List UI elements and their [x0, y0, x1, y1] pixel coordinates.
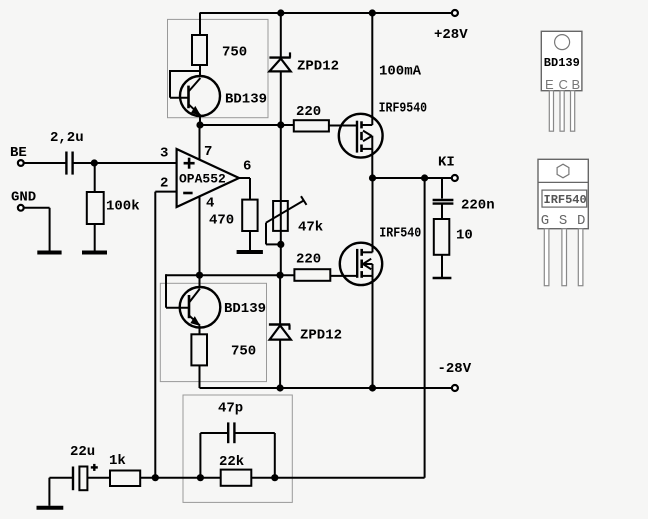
- potentiometer 47k: [266, 196, 307, 231]
- wire Q2 emitter to R750: [199, 326, 201, 335]
- svg-text:ZPD12: ZPD12: [297, 59, 339, 75]
- resistor 22k: [221, 470, 252, 486]
- wire pin7 supply to bias node: [199, 125, 201, 160]
- pin C lead: [560, 91, 564, 132]
- svg-text:7: 7: [204, 144, 212, 160]
- svg-text:100mA: 100mA: [379, 64, 422, 80]
- svg-text:BD139: BD139: [225, 92, 267, 108]
- node 22k left: [197, 474, 204, 481]
- wire top rail +28V: [200, 12, 452, 14]
- svg-text:GND: GND: [11, 190, 36, 206]
- node Q1 emitter: [196, 121, 203, 128]
- wire C to op-amp + input: [74, 162, 177, 164]
- wire bias node to zener column: [200, 124, 294, 126]
- resistor 220 (upper gate): [294, 120, 329, 131]
- op-amp plus sign: [184, 158, 195, 169]
- svg-text:E: E: [545, 77, 554, 92]
- pin label 2: [160, 176, 168, 192]
- label BD139 upper: [225, 92, 267, 108]
- pin label E: [545, 77, 554, 92]
- transistor U2 IRF9540: [339, 114, 383, 158]
- label KI: [438, 155, 455, 171]
- terminal GND: [18, 205, 24, 211]
- wire R750 lower to bottom rail: [199, 365, 201, 388]
- ground bar under zobel: [433, 277, 452, 280]
- resistor 100k: [87, 192, 104, 224]
- wire lower zener to bottom rail: [279, 340, 281, 388]
- wire IRF540 source to bottom rail: [372, 276, 374, 388]
- svg-text:+28V: +28V: [434, 27, 468, 43]
- wire BE to C 2,2u: [24, 162, 66, 164]
- wire zener to bias node: [280, 71, 282, 275]
- svg-text:OPA552: OPA552: [179, 172, 226, 187]
- svg-text:ZPD12: ZPD12: [300, 328, 342, 344]
- label +28V: [434, 27, 468, 43]
- svg-text:-28V: -28V: [438, 361, 472, 377]
- node bottom rail / zener: [277, 384, 284, 391]
- op-amp U1 OPA552: [177, 149, 239, 207]
- wire KI feedback vertical: [424, 178, 426, 478]
- label 220n: [461, 198, 495, 214]
- svg-text:220: 220: [296, 252, 321, 268]
- node top rail / zener: [277, 9, 284, 16]
- svg-text:750: 750: [222, 45, 247, 61]
- wire R100k to ground: [94, 224, 96, 251]
- wire pin4 row: [166, 274, 294, 276]
- svg-text:D: D: [577, 213, 585, 229]
- label OPA552: [179, 172, 226, 187]
- node feedback / 1k: [152, 474, 159, 481]
- resistor 750 (upper): [192, 35, 207, 65]
- wire ground to C22u: [49, 478, 73, 506]
- pin label S: [559, 213, 567, 229]
- resistor 470: [242, 200, 257, 231]
- wire bottom rail -28V: [200, 387, 452, 389]
- svg-text:1k: 1k: [109, 453, 126, 469]
- label BD139 package: [544, 56, 580, 70]
- plus mark 22u: [91, 464, 98, 471]
- package BD139 TO-126: [541, 31, 582, 90]
- wire zobel drop: [441, 178, 443, 199]
- label 22u: [70, 444, 95, 460]
- node output / feedback tap: [421, 174, 428, 181]
- wire zener column upper segment: [280, 13, 282, 58]
- node bottom rail / IRF540: [369, 384, 376, 391]
- label GND: [11, 190, 36, 206]
- svg-text:6: 6: [243, 159, 251, 175]
- svg-text:4: 4: [206, 196, 214, 212]
- capacitor 47p: [228, 422, 234, 443]
- label 22k: [219, 454, 244, 470]
- node output midpoint: [369, 174, 376, 181]
- capacitor C 2,2u: [66, 152, 72, 175]
- ground bar under 470: [237, 250, 263, 254]
- label 750 lower: [231, 344, 256, 360]
- node 22k right: [271, 474, 278, 481]
- wire feedback bottom row right: [251, 477, 424, 479]
- pin label C: [559, 77, 568, 92]
- label IRF9540: [379, 101, 428, 117]
- svg-text:220: 220: [296, 104, 321, 120]
- label 47p: [218, 401, 243, 417]
- ground bar under 22u: [37, 506, 64, 510]
- pin label G: [541, 213, 549, 229]
- wire IRF540 drain to output node: [372, 178, 374, 252]
- wire op-amp output: [239, 178, 250, 200]
- pin G lead: [544, 229, 549, 286]
- zener diode ZPD12 (upper): [269, 52, 290, 71]
- label IRF540: [379, 226, 421, 242]
- svg-text:22k: 22k: [219, 454, 244, 470]
- node pin4 / Q2 collector: [196, 272, 203, 279]
- svg-text:3: 3: [160, 146, 168, 162]
- transistor Q2 BD139 (lower): [180, 287, 221, 328]
- wire pin4 supply down: [199, 197, 201, 276]
- svg-text:220n: 220n: [461, 198, 495, 214]
- wire 220n to R10: [441, 205, 443, 220]
- wire R750 to collector: [199, 65, 201, 77]
- pin E lead: [549, 91, 553, 132]
- wire IRF9540 source to rail: [371, 13, 373, 125]
- wire base-collector tie of Q1: [170, 70, 200, 98]
- label 220 upper: [296, 104, 321, 120]
- box around upper BD139 stage: [168, 19, 269, 117]
- wire from rail down to R 750: [199, 13, 201, 35]
- wire feedback vertical: [154, 192, 156, 478]
- node 47k wiper: [277, 241, 284, 248]
- wire R220 lower to IRF540 gate: [330, 275, 356, 277]
- pin label 7: [204, 144, 212, 160]
- svg-text:IRF9540: IRF9540: [379, 101, 428, 117]
- svg-text:BE: BE: [10, 145, 27, 161]
- pin label D: [577, 213, 585, 229]
- wire R220 to IRF9540 gate: [329, 125, 357, 127]
- box around lower BD139 stage: [160, 283, 266, 381]
- svg-text:BD139: BD139: [224, 301, 266, 317]
- svg-text:BD139: BD139: [544, 56, 580, 70]
- node top rail / IRF9540: [369, 9, 376, 16]
- resistor 10: [434, 219, 450, 255]
- svg-text:S: S: [559, 213, 567, 229]
- ground bar under 100k: [82, 251, 107, 255]
- wire inverting input: [155, 191, 176, 193]
- wire R1k to 22k: [140, 477, 221, 479]
- label 47k: [298, 220, 323, 236]
- wire GND input: [24, 208, 50, 251]
- svg-text:C: C: [559, 77, 568, 92]
- label BD139 lower: [224, 301, 266, 317]
- resistor 750 (lower): [191, 334, 207, 365]
- label 1k: [109, 453, 126, 469]
- label 100mA: [379, 64, 422, 80]
- transistor Q1 BD139 (upper): [180, 76, 220, 116]
- zener diode ZPD12 (lower): [269, 325, 291, 340]
- capacitor C 22u polarized: [73, 467, 87, 491]
- terminal -28V: [452, 385, 458, 391]
- pin label B: [572, 77, 581, 92]
- label 220 lower: [296, 252, 321, 268]
- label BE: [10, 145, 27, 161]
- pin B lead: [571, 91, 575, 132]
- wire R470 to ground: [249, 231, 251, 251]
- svg-text:47k: 47k: [298, 220, 323, 236]
- label 750 upper: [222, 45, 247, 61]
- terminal BE: [18, 160, 24, 166]
- pin label 4: [206, 196, 214, 212]
- wire C22u to R1k: [87, 477, 110, 479]
- node input / 100k: [91, 159, 98, 166]
- wire 47p branch: [200, 433, 274, 478]
- svg-text:22u: 22u: [70, 444, 95, 460]
- wire output row to KI: [373, 177, 452, 179]
- svg-text:750: 750: [231, 344, 256, 360]
- label IRF540 package: [544, 193, 587, 207]
- wire Q2 collector: [199, 275, 201, 287]
- svg-text:100k: 100k: [106, 199, 140, 215]
- label 100k: [106, 199, 140, 215]
- label 470: [209, 213, 234, 229]
- svg-text:10: 10: [456, 228, 473, 244]
- svg-text:IRF540: IRF540: [544, 193, 587, 207]
- wire 47k wiper tie: [266, 223, 281, 245]
- wire R10 down: [441, 255, 443, 278]
- label 10: [456, 228, 473, 244]
- wire node down to R 100k: [94, 163, 96, 192]
- resistor 220 (lower gate): [294, 269, 330, 281]
- svg-text:2: 2: [160, 176, 168, 192]
- package IRF540 TO-220: [538, 159, 588, 228]
- svg-text:B: B: [572, 77, 581, 92]
- svg-text:G: G: [541, 213, 549, 229]
- pin D lead: [578, 229, 583, 286]
- pin label 6: [243, 159, 251, 175]
- svg-text:2,2u: 2,2u: [50, 130, 84, 146]
- terminal KI: [452, 175, 458, 181]
- ground bar GND input: [37, 251, 61, 255]
- wire zener column to lower zener: [279, 275, 281, 324]
- label 2,2u: [50, 130, 84, 146]
- label ZPD12 lower: [300, 328, 342, 344]
- transistor U3 IRF540: [340, 243, 382, 285]
- pin S lead: [562, 229, 567, 286]
- svg-text:47p: 47p: [218, 401, 243, 417]
- resistor 1k: [110, 471, 140, 487]
- node pin4 row / zener column: [277, 272, 284, 279]
- terminal +28V: [452, 10, 458, 16]
- svg-text:IRF540: IRF540: [379, 226, 421, 242]
- svg-text:KI: KI: [438, 155, 455, 171]
- node zener / R220 upper: [277, 121, 284, 128]
- op-amp minus sign: [183, 192, 192, 195]
- label ZPD12 upper: [297, 59, 339, 75]
- capacitor 220n: [433, 200, 454, 204]
- wire Q1 emitter down to bias node: [199, 116, 201, 126]
- wire base tie of Q2: [166, 274, 189, 308]
- label -28V: [438, 361, 472, 377]
- svg-text:470: 470: [209, 213, 234, 229]
- pin label 3: [160, 146, 168, 162]
- box around feedback network: [183, 395, 292, 502]
- wire IRF9540 drain to output node: [371, 149, 373, 178]
